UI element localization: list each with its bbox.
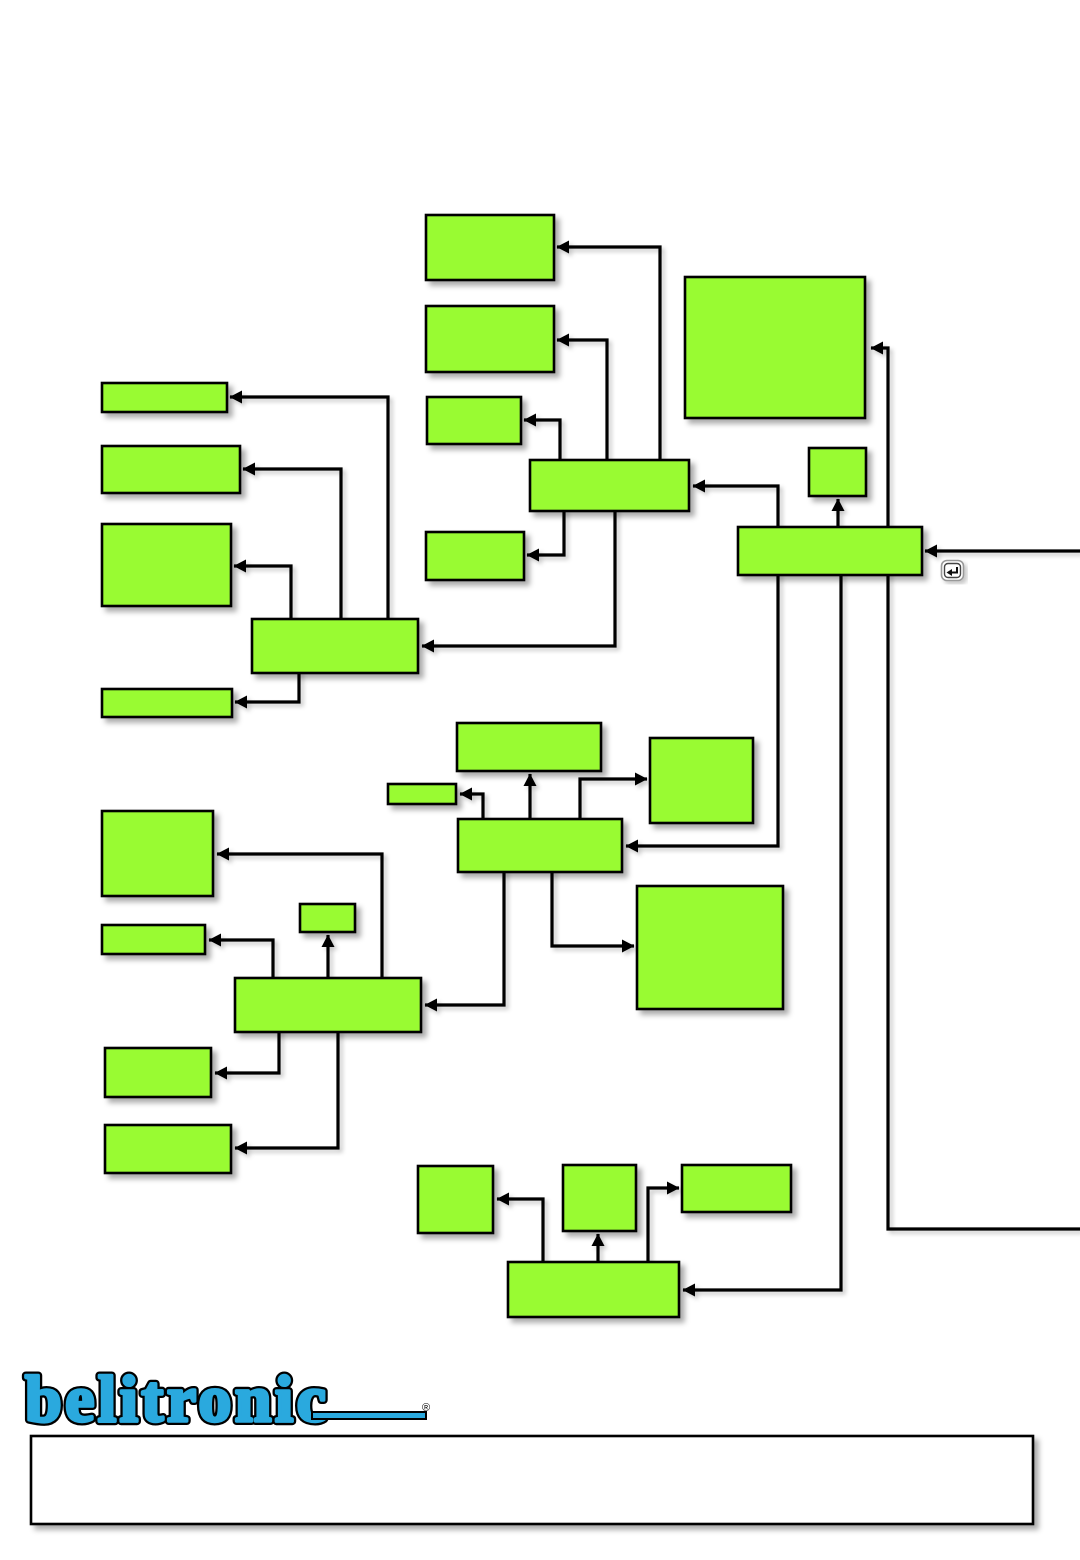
svg-text:®: ® — [422, 1402, 430, 1414]
svg-text:belitronic: belitronic — [25, 1363, 325, 1436]
